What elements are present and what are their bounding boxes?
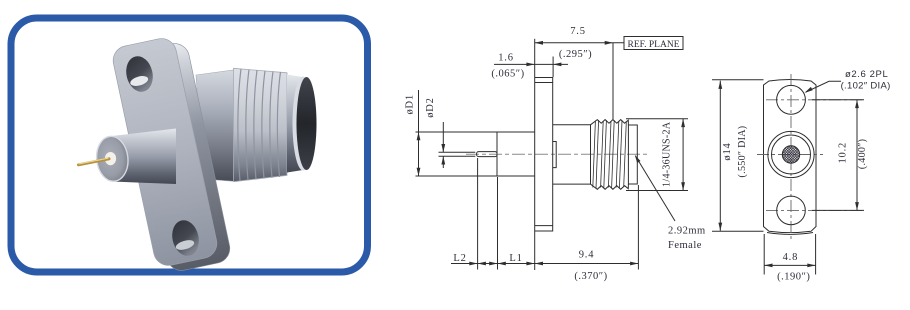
dimension 4.8 (.190") [764, 234, 815, 283]
svg-text:Female: Female [668, 240, 702, 251]
blue frame [11, 18, 368, 272]
svg-text:(.400″): (.400″) [857, 139, 868, 169]
callout o2.6 2PL (.102" DIA) [804, 69, 890, 93]
svg-text:(.065″): (.065″) [491, 69, 524, 80]
dimension 10.2 (.400") [812, 100, 868, 211]
3D connector: flange plate front face [110, 36, 219, 268]
svg-text:(.190″): (.190″) [777, 272, 810, 283]
3D connector: front barrel cylinder [94, 129, 176, 185]
boss behind flange [553, 142, 557, 168]
dimension 7.5 (.295") with REF. PLANE [535, 26, 683, 120]
bottom mounting hole (front view) [777, 196, 806, 225]
svg-text:1.6: 1.6 [498, 53, 514, 64]
3D connector: rear coupling body neck [196, 70, 237, 182]
end cap (side view) [628, 125, 637, 184]
svg-text:2.92mm: 2.92mm [668, 226, 706, 237]
3D connector: dielectric and center pin [79, 152, 117, 165]
bottom chained dimensions L2, L1, 9.4 [451, 158, 638, 282]
svg-text:9.4: 9.4 [579, 250, 595, 261]
3D connector: flange plate side (thickness) [123, 41, 232, 273]
flange front view outline [764, 80, 817, 235]
barrel outline with dimension extension lines [416, 132, 535, 176]
svg-text:(.550″ DIA): (.550″ DIA) [737, 126, 748, 178]
svg-text:(.370″): (.370″) [574, 271, 607, 282]
dimension 1.6 (.065") [491, 53, 568, 80]
dimension oD1 [404, 90, 420, 176]
svg-text:(.295″): (.295″) [559, 49, 592, 60]
center pin (side view) [439, 152, 498, 157]
svg-text:1/4-36UNS-2A: 1/4-36UNS-2A [662, 121, 673, 187]
3D connector: ribbed (threaded) section [234, 68, 288, 181]
top mounting hole (front view) [777, 85, 806, 114]
svg-text:7.5: 7.5 [570, 26, 586, 37]
svg-text:(.102″ DIA): (.102″ DIA) [841, 81, 891, 92]
3D connector: end cap and dark end face [287, 75, 317, 173]
svg-text:L2: L2 [453, 253, 466, 264]
svg-text:L1: L1 [509, 253, 522, 264]
svg-text:4.8: 4.8 [783, 252, 799, 263]
threaded section 1/4-36UNS-2A (side view) [591, 120, 629, 190]
svg-text:10.2: 10.2 [837, 142, 848, 164]
dimension o14 (.550" DIA) [712, 80, 764, 232]
3D connector: top mounting hole [123, 54, 156, 95]
svg-text:ø14: ø14 [722, 142, 733, 160]
svg-text:REF. PLANE: REF. PLANE [627, 40, 679, 50]
dimension oD2 [425, 97, 445, 168]
thread callout dimension 1/4-36UNS-2A [626, 119, 688, 191]
center line [466, 153, 648, 155]
rear body neck (side view) [553, 125, 591, 184]
svg-text:ø2.6 2PL: ø2.6 2PL [845, 69, 888, 80]
svg-text:øD1: øD1 [404, 94, 415, 114]
front view center lines [757, 74, 864, 242]
2.92mm Female callout [635, 155, 706, 251]
flange (side view) [535, 78, 553, 232]
3D connector: bottom mounting hole [169, 218, 202, 259]
svg-text:øD2: øD2 [425, 97, 436, 117]
center interface circles (front view) [768, 131, 814, 177]
